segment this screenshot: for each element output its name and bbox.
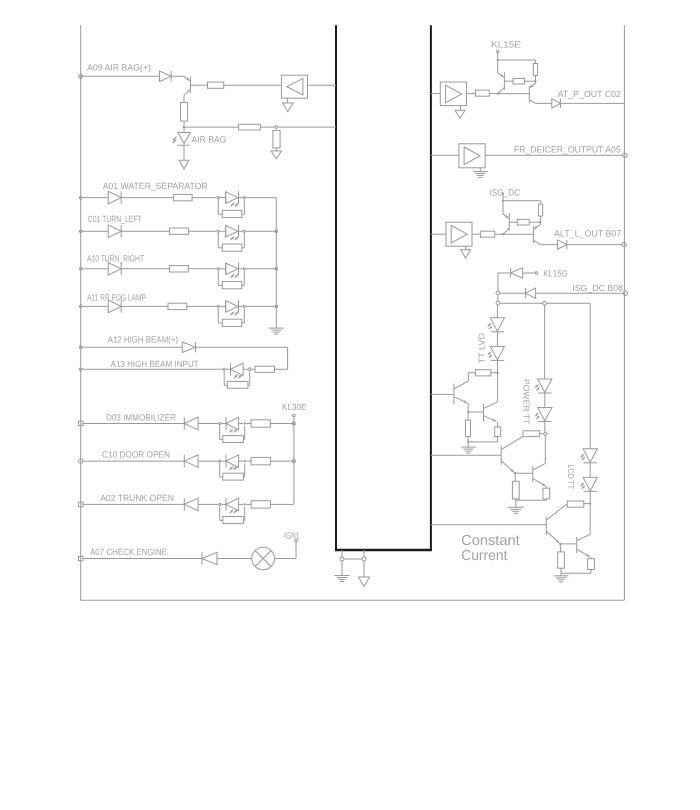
wire A11 to diode [82, 305, 108, 307]
svg-text:ISG_DC: ISG_DC [490, 188, 521, 198]
wire node H to R11 [491, 372, 498, 374]
svg-text:D03 IMMOBILIZER: D03 IMMOBILIZER [106, 412, 176, 422]
resistor R-C10 [251, 457, 270, 464]
wire diode to resistor A01 [121, 197, 173, 199]
junction node J [467, 441, 469, 443]
wire diode to LED module A02 [198, 503, 218, 505]
svg-text:KL15E: KL15E [491, 40, 521, 50]
junction node B [275, 126, 278, 129]
wire node G down [544, 305, 546, 379]
terminal FR_DEICER A05 [623, 153, 627, 157]
resistor R2 [181, 102, 188, 121]
transistor Q6 [453, 384, 455, 405]
diode D-A11 [108, 300, 121, 313]
wire node I to Q7 base [468, 411, 483, 413]
junction ISG node [502, 200, 504, 202]
resistor R15 [512, 481, 519, 499]
node A09 on left bus [78, 74, 83, 79]
wire node N to Q11 base [560, 543, 576, 545]
node A13 on left bus [79, 368, 82, 371]
node A01 on left bus [79, 196, 82, 199]
junction node I [467, 411, 469, 413]
wire connector to U4 [431, 233, 446, 235]
transistor Q4 [502, 201, 504, 214]
frame bottom border [81, 599, 625, 601]
LED POWER-TT 1 [538, 379, 552, 392]
wire Q4 base to R9 [509, 221, 517, 223]
wire U2 to R7 [467, 93, 476, 95]
wire A12 corner down [287, 347, 289, 369]
transistor Q7 [483, 404, 485, 422]
svg-text:Current: Current [461, 548, 507, 564]
wire diode to KL15G terminal [523, 272, 535, 274]
wire A01 to diode [82, 197, 108, 199]
resistor R-C01 [170, 228, 189, 234]
node D03 on left bus [79, 421, 83, 425]
svg-text:Constant: Constant [461, 533, 520, 549]
connector body bottom edge [335, 549, 432, 551]
wire between LEDs LCD [589, 463, 591, 477]
wire node G right [546, 302, 590, 304]
terminal IGN1 [295, 540, 297, 542]
junction D03/KL30E bus [292, 422, 295, 425]
svg-text:A11 RR FOG LAMP: A11 RR FOG LAMP [87, 293, 146, 303]
junction node H [496, 372, 498, 374]
wire connector to U3 [431, 154, 459, 156]
LED POWER-TT 2 [538, 408, 552, 421]
diode D-KL15G [510, 268, 512, 278]
wire R6 to node C [525, 80, 536, 82]
wire KL15E down [497, 53, 499, 60]
wire diode to LED module D03 [198, 423, 218, 425]
wire node B to connector [278, 126, 336, 128]
connector pin stem 2 [363, 550, 365, 557]
wire module to resistor D03 [246, 423, 251, 425]
diode D-A01 [108, 191, 121, 204]
ground constant current [560, 573, 562, 576]
resistor R9 [517, 219, 529, 225]
wire diode to node E [500, 292, 526, 294]
wire resistor D03 to KL30E bus [270, 423, 294, 425]
transistor Q10 [545, 517, 547, 536]
junction node L [514, 472, 516, 474]
wire to frame AT_P_OUT [561, 102, 625, 104]
resistor R13 [495, 427, 501, 437]
svg-text:ALT_L_OUT B07: ALT_L_OUT B07 [554, 229, 621, 239]
wire C01 to diode [82, 230, 108, 232]
diode D-A07 [201, 552, 203, 565]
base wire y93.6 [489, 93, 529, 95]
wire right column down [589, 303, 591, 449]
svg-text:A07 CHECK ENGINE: A07 CHECK ENGINE [90, 547, 167, 557]
node A12 on left bus [79, 346, 82, 349]
ground rail TT-LVD [468, 441, 497, 443]
transistor Q1 [184, 76, 190, 81]
wire LED module C01 to right bus [246, 230, 276, 232]
ground rail POWER-TT [515, 499, 517, 500]
wire pin1 to ground [341, 561, 343, 575]
wire KL15G left segment [498, 272, 511, 274]
frame right border [623, 25, 625, 600]
ground under U2 [460, 106, 462, 111]
wire R2 to node [183, 121, 185, 127]
resistor R4 [273, 130, 280, 148]
node A07 on left bus [79, 556, 83, 560]
resistor R-D03 [251, 420, 270, 427]
LED TT-LCD 1 [583, 449, 597, 462]
svg-text:A09 AIR BAG(+): A09 AIR BAG(+) [87, 63, 151, 73]
resistor R10 [480, 231, 494, 237]
LED module A10 [217, 268, 219, 270]
wire A13 module to resistor [252, 368, 255, 370]
wire between pins [344, 558, 362, 560]
ground under U3 [479, 168, 481, 172]
LED module D03 [219, 423, 221, 425]
junction node E [496, 291, 500, 295]
wire down to Q6 [467, 373, 469, 381]
connector pin stem 1 [341, 550, 343, 557]
junction node A [183, 126, 185, 128]
wire diode to resistor A11 [121, 305, 168, 307]
svg-text:AIR BAG: AIR BAG [192, 134, 227, 144]
wire connector to Q10 base [431, 524, 546, 526]
wire resistor A02 to KL30E bus [270, 503, 294, 505]
wire node F right [500, 302, 543, 304]
resistor R-A10 [170, 266, 189, 272]
diode D-C01 [108, 225, 121, 238]
wire A07 to diode [83, 558, 202, 560]
op-amp U4 [446, 222, 472, 246]
wire resistor to LED module A01 [192, 197, 217, 199]
wire LED down to node K [544, 421, 546, 431]
resistor R17 [567, 501, 584, 507]
base wire y234.2 [495, 233, 534, 235]
svg-text:KL15G: KL15G [543, 268, 567, 278]
node A02 on left bus [79, 502, 83, 506]
wire KL15G down [497, 273, 499, 291]
junction C01/bus [275, 230, 278, 233]
junction node G [543, 302, 547, 306]
wire U3 to frame [485, 154, 623, 156]
diode D-A10 [108, 263, 121, 276]
wire node H down to Q7 [497, 373, 499, 402]
wire A09 to diode [81, 75, 160, 77]
diode D-A09 [160, 71, 172, 82]
resistor R19 [588, 559, 595, 570]
resistor R14 [523, 431, 540, 437]
wire node L to Q9 base [515, 472, 533, 474]
wire resistor C10 to KL30E bus [270, 460, 294, 462]
LED module A11 [217, 305, 219, 307]
wire between LEDs [496, 332, 498, 347]
diode D-ATP [552, 99, 561, 108]
wire LED down to node M [589, 492, 591, 504]
op-amp U3 [459, 144, 485, 168]
connector pin 2 [362, 557, 366, 561]
resistor R-A02 [251, 501, 270, 508]
node A11 on left bus [79, 305, 82, 308]
wire to frame ALT_L_OUT [567, 244, 623, 246]
svg-text:FR_DEICER_OUTPUT A05: FR_DEICER_OUTPUT A05 [514, 144, 621, 154]
svg-text:C10 DOOR OPEN: C10 DOOR OPEN [102, 449, 170, 459]
ground hatch pin1 [335, 575, 350, 577]
wire R1 to U1 [224, 84, 282, 86]
wire A12 to diode [82, 346, 182, 348]
junction node C [534, 80, 536, 82]
connector body left edge [335, 25, 337, 550]
svg-text:A13 HIGH BEAM INPUT: A13 HIGH BEAM INPUT [111, 359, 199, 369]
junction node N [559, 543, 561, 545]
ground TT-LVD [467, 442, 469, 447]
wire node I to R12 [467, 412, 469, 420]
ground rail constant current [560, 568, 562, 573]
wire diode to resistor C01 [121, 230, 169, 232]
diode D-B08 [524, 288, 526, 298]
wire U4 to R10 [472, 233, 480, 235]
resistor R8 [539, 204, 543, 216]
junction C10/KL30E bus [292, 460, 295, 463]
wire A02 to diode [83, 503, 185, 505]
LED TT-LVD 2 [490, 346, 504, 359]
wire node E to node F [497, 295, 499, 302]
KL30E bus [293, 417, 295, 504]
junction Q2/base wire [497, 92, 499, 94]
resistor R6 [513, 78, 525, 84]
wire node N to R18 [559, 544, 561, 552]
wire Q9 emitter down [545, 486, 547, 488]
svg-text:TT LVD: TT LVD [477, 333, 487, 364]
wire LED module A10 to right bus [246, 268, 276, 270]
wire lamp to IGN1 [274, 558, 296, 560]
wire node to R3 [184, 126, 239, 128]
svg-text:IGN1: IGN1 [284, 530, 300, 540]
svg-text:A01 WATER_SEPARATOR: A01 WATER_SEPARATOR [103, 181, 208, 191]
wire D03 to diode [83, 423, 185, 425]
wire A10 to diode [82, 268, 108, 270]
transistor Q2 [497, 60, 499, 73]
wire node K down [544, 436, 546, 463]
diode D-C10 [183, 455, 185, 468]
wire Q11 emitter down [590, 557, 592, 559]
resistor R11 [475, 370, 491, 376]
wire C10 to diode [83, 460, 185, 462]
resistor R18 [558, 552, 565, 568]
flash symbol [173, 137, 177, 144]
connector pin 1 [340, 557, 344, 561]
wire connector to U2 [431, 93, 440, 95]
resistor R-A11 [168, 303, 187, 309]
ground POWER-TT [515, 500, 517, 507]
wire LED2 down [496, 360, 498, 373]
node A10 on left bus [79, 268, 82, 271]
wire R9 to node D [529, 221, 540, 223]
op-amp U2 [440, 82, 466, 106]
wire R5 to node C [535, 75, 537, 81]
resistor R12 [465, 420, 470, 436]
junction Q4/base wire [502, 233, 504, 235]
wire resistor to LED module A11 [187, 305, 217, 307]
LED module C01 [217, 230, 219, 232]
wire between LEDs POWER [544, 393, 546, 408]
wire ISG node right [503, 200, 541, 202]
svg-text:POWER TT: POWER TT [521, 379, 531, 424]
wire Q3 emitter to diode [536, 102, 552, 104]
wire R14 to node K [540, 433, 543, 435]
LED TT-LVD 1 [490, 318, 504, 331]
wire diode to lamp [217, 558, 252, 560]
ground under U1 [287, 98, 289, 103]
wire diode to LED module C10 [198, 460, 218, 462]
wire node M down to Q11 [589, 504, 591, 535]
ground under U4 [465, 246, 467, 250]
wire R17 to Q10 [560, 504, 567, 509]
op-amp U1 [281, 75, 307, 98]
transistor Q3 [534, 81, 536, 83]
terminal B08 [623, 291, 627, 295]
junction KL15E node [497, 59, 499, 61]
terminal KL15G [535, 272, 538, 275]
right bus of indicator rows [275, 198, 277, 329]
junction ISG_DC label node [502, 192, 504, 194]
LED module A01 [217, 197, 219, 199]
resistor R1 [208, 82, 224, 88]
node C01 on left bus [79, 230, 82, 233]
junction node F [496, 302, 500, 306]
wire ISG_DC down [502, 194, 504, 201]
wire R8 to node D [540, 216, 542, 222]
terminal ALT_L_OUT B07 [622, 242, 626, 246]
wire LED module A01 to right bus [246, 197, 276, 199]
junction A11/bus [275, 305, 278, 308]
LED TT-LCD 2 [583, 477, 597, 490]
resistor R5 [533, 64, 537, 76]
ground under right bus [269, 327, 284, 329]
wire R-A13 to corner [275, 368, 288, 370]
transistor Q8 [500, 446, 502, 465]
frame left border [80, 25, 82, 600]
LED module A02 [219, 503, 221, 505]
LED module C10 [219, 460, 221, 462]
wire diode to resistor A10 [121, 268, 169, 270]
wire A13 to LED module [82, 368, 222, 370]
LED AIR BAG [183, 127, 185, 132]
wire connector to Q8 base [431, 454, 501, 456]
node C10 on left bus [79, 459, 83, 463]
connector body right edge [430, 25, 432, 550]
wire R3 to node B [260, 126, 274, 128]
resistor R3 [239, 124, 261, 130]
resistor R16 [543, 488, 550, 499]
svg-text:LCD TT: LCD TT [566, 465, 576, 490]
wire resistor to LED module C01 [188, 230, 216, 232]
diode D-ALT [557, 240, 566, 249]
resistor R-A01 [174, 194, 193, 200]
wire resistor to LED module A10 [188, 268, 216, 270]
wire R17 to node M [584, 503, 590, 505]
svg-text:C01 TURN_LEFT: C01 TURN_LEFT [88, 214, 142, 224]
wire U1 out to connector [308, 84, 337, 86]
diode D-D03 [183, 417, 185, 430]
svg-text:A02 TRUNK OPEN: A02 TRUNK OPEN [100, 493, 174, 503]
junction node K [543, 432, 547, 436]
terminal KL15E [497, 51, 499, 53]
wire module to resistor A02 [246, 503, 251, 505]
ground under LED [183, 145, 185, 160]
wire Q2 base to R6 [504, 80, 513, 82]
ground under R4 [275, 148, 277, 151]
lamp CHECK ENGINE [252, 547, 275, 570]
junction node D [539, 221, 541, 223]
wire KL15E node right [498, 59, 536, 61]
wire A12 diode to corner [196, 346, 288, 348]
wire Q5 emitter to diode [541, 244, 558, 246]
junction node M [589, 502, 591, 504]
wire R12 to ground rail [467, 436, 469, 442]
LED module A13 [223, 368, 225, 370]
wire diode to Q1 [171, 75, 184, 77]
terminal KL30E [293, 414, 296, 417]
svg-text:ISG_DC B08: ISG_DC B08 [572, 283, 623, 293]
wire R11 left [468, 372, 475, 374]
wire B08 to diode [536, 292, 624, 294]
wire LED module A11 to right bus [246, 305, 276, 307]
wire to R8 [540, 201, 542, 204]
wire node F down [496, 305, 498, 318]
transistor Q5 [539, 222, 541, 224]
wire to R5 [535, 60, 537, 64]
junction A10/bus [275, 268, 278, 271]
transistor Q9 [532, 466, 534, 482]
wire pin2 to ground [363, 561, 365, 577]
diode D-A02 [183, 498, 185, 511]
wire Q6 emitter down [467, 403, 469, 412]
resistor R-A13 [255, 366, 275, 372]
svg-text:KL30E: KL30E [282, 402, 307, 412]
svg-text:AT_P_OUT C02: AT_P_OUT C02 [558, 89, 621, 99]
resistor R7 [476, 90, 490, 96]
wire node L to R15 [514, 473, 516, 481]
wire module to resistor C10 [246, 460, 251, 462]
ground triangle pin2 [359, 577, 370, 587]
svg-text:A12 HIGH BEAM(+): A12 HIGH BEAM(+) [108, 335, 178, 345]
wire Q1 base to R1 [190, 84, 207, 86]
transistor Q11 [576, 537, 578, 553]
svg-text:A10 TURN_RIGHT: A10 TURN_RIGHT [87, 254, 144, 264]
wire Q7 emitter down [497, 422, 499, 427]
diode D-A12 [182, 342, 195, 352]
wire connector to Q6 base [431, 393, 454, 395]
